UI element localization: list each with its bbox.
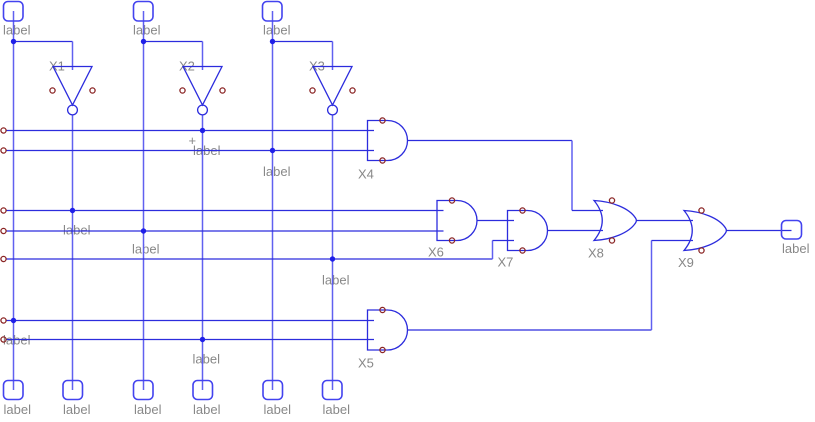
svg-text:label: label [4,402,32,417]
svg-text:label: label [193,402,221,417]
junction [200,128,205,133]
wire [572,210,603,212]
probe pin P9 [323,381,343,400]
wire [332,42,334,71]
svg-text:label: label [132,242,160,257]
probe pin P4 [4,381,24,400]
junction [141,39,146,44]
svg-text:label: label [782,241,810,256]
X8 power pin marker [609,198,614,203]
X9 power pin marker [699,248,704,253]
inverter X1 [53,67,92,115]
wire [332,115,334,390]
wire [202,42,204,71]
X5 power pin marker [380,307,385,312]
junction [11,318,16,323]
wire [6,150,375,152]
X1 power pin marker [50,88,55,93]
wire [144,41,203,43]
input pin P2 [134,2,154,22]
svg-text:label: label [263,23,291,38]
X8 power pin marker [609,238,614,243]
input pin P1 [4,2,24,22]
svg-text:X8: X8 [588,246,604,261]
svg-text:label: label [134,402,162,417]
wire [14,41,73,43]
wire [6,130,375,132]
wire [72,42,74,71]
svg-text:X7: X7 [498,255,514,270]
unconnected wire end marker [1,337,6,342]
wire [273,41,333,43]
junction [141,228,146,233]
wire [272,11,274,390]
wire [13,11,15,390]
junction [270,39,275,44]
and gate X6 [437,201,477,241]
X9 power pin marker [699,208,704,213]
junction [330,256,335,261]
wire [727,230,792,232]
X7 power pin marker [520,208,525,213]
wire [477,220,514,222]
wire [493,240,515,242]
junction [70,208,75,213]
X7 power pin marker [520,248,525,253]
wire [637,220,694,222]
probe pin P8 [263,381,283,400]
svg-text:label: label [323,402,351,417]
wire [143,11,145,390]
X2 power pin marker [180,88,185,93]
probe pin P7 [193,381,213,400]
svg-text:label: label [263,164,291,179]
junction [270,148,275,153]
wire [72,115,74,390]
X5 power pin marker [380,347,385,352]
svg-text:label: label [63,223,91,238]
svg-text:X5: X5 [358,356,374,371]
wire [6,339,375,341]
X3 power pin marker [350,88,355,93]
X4 power pin marker [380,118,385,123]
svg-text:X6: X6 [428,245,444,260]
wire [548,230,604,232]
svg-text:X9: X9 [678,255,694,270]
probe pin P6 [134,381,154,400]
wire [408,140,573,142]
svg-text:label: label [3,23,31,38]
wire [6,320,375,322]
unconnected wire end marker [1,148,6,153]
wire [6,258,493,260]
svg-text:X4: X4 [358,167,374,182]
probe pin P5 [63,381,83,400]
input pin P3 [263,2,283,22]
unconnected wire end marker [1,318,6,323]
unconnected wire end marker [1,128,6,133]
junction [11,39,16,44]
X6 power pin marker [449,198,454,203]
X1 power pin marker [90,88,95,93]
unconnected wire end marker [1,228,6,233]
wire [492,241,494,260]
svg-text:label: label [322,273,350,288]
inverter X2 [183,67,222,115]
wire [6,210,444,212]
wire [6,230,444,232]
and gate X5 [368,310,408,350]
X3 power pin marker [310,88,315,93]
junction [200,337,205,342]
svg-text:label: label [264,402,292,417]
svg-text:label: label [63,402,91,417]
or gate X9 [684,211,726,251]
svg-text:label: label [193,352,221,367]
wire [651,241,653,331]
X4 power pin marker [380,158,385,163]
wire [571,141,573,211]
unconnected wire end marker [1,208,6,213]
svg-text:label: label [133,23,161,38]
and gate X4 [368,121,408,161]
inverter X3 [313,67,352,115]
wire [408,329,652,331]
unconnected wire end marker [1,256,6,261]
wire [202,115,204,390]
output pin P10 [782,221,802,240]
or gate X8 [594,201,636,241]
wire [652,240,694,242]
X6 power pin marker [449,238,454,243]
and gate X7 [508,211,548,251]
X2 power pin marker [220,88,225,93]
